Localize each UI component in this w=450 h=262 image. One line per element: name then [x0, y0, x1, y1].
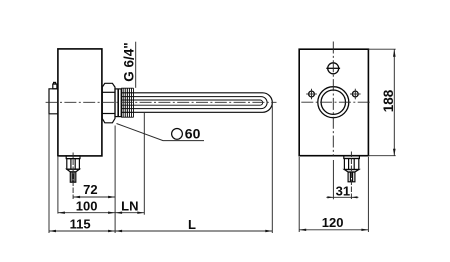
svg-text:LN: LN [121, 199, 138, 214]
svg-text:L: L [188, 217, 196, 232]
svg-text:115: 115 [70, 216, 91, 231]
svg-text:100: 100 [76, 199, 98, 214]
svg-text:G 6/4": G 6/4" [122, 42, 137, 81]
svg-text:72: 72 [83, 182, 97, 197]
svg-text:120: 120 [322, 215, 344, 230]
svg-text:31: 31 [336, 184, 350, 199]
svg-text:60: 60 [185, 126, 201, 142]
svg-text:188: 188 [381, 89, 396, 112]
